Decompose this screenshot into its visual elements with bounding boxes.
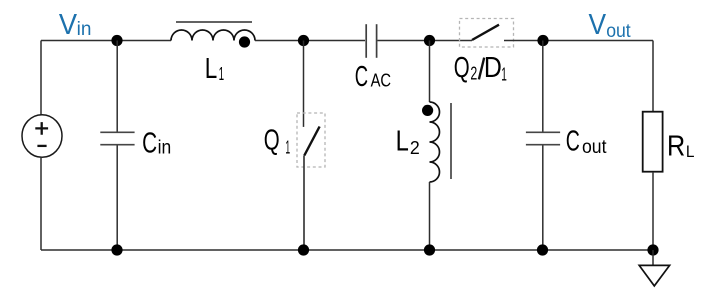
switch Q1 lead top <box>303 41 305 127</box>
svg-text:C: C <box>142 127 157 159</box>
svg-text:2: 2 <box>470 63 477 84</box>
wire left vertical (source bottom lead) <box>40 157 42 250</box>
voltage source V1 <box>22 115 62 158</box>
label Q1 <box>264 125 290 158</box>
capacitor Cin lead bottom <box>116 145 118 250</box>
switch Q2/D1 blade <box>472 25 499 40</box>
label Cout <box>566 125 607 158</box>
capacitor Cout lead top <box>542 41 544 132</box>
wire left vertical (source top lead) <box>40 41 42 115</box>
ground <box>639 250 669 286</box>
node Q1 junction dot top <box>298 35 309 46</box>
switch Q1 blade <box>304 127 319 156</box>
svg-text:out: out <box>582 137 607 158</box>
svg-text:Q: Q <box>454 52 470 84</box>
svg-text:R: R <box>667 130 685 162</box>
inductor L2 polarity dot <box>422 105 433 116</box>
switch Q1 lead bottom <box>303 156 305 251</box>
node junction dot bottom Q1 <box>298 244 309 255</box>
inductor L2 lead top <box>429 41 431 103</box>
node junction dot bottom Cin <box>111 244 122 255</box>
capacitor CAC <box>366 24 376 58</box>
svg-text:C: C <box>566 125 580 157</box>
wire top between Q2 and Cout <box>504 40 653 42</box>
label CAC <box>355 61 391 93</box>
svg-text:out: out <box>606 21 631 42</box>
svg-text:Q: Q <box>264 125 280 157</box>
node label Vin <box>59 9 92 41</box>
svg-text:V: V <box>589 9 607 41</box>
inductor L1 polarity dot <box>239 36 250 47</box>
node label Vout <box>589 9 632 42</box>
wire right vertical top <box>652 41 654 112</box>
capacitor Cin lead top <box>116 41 118 132</box>
wire top between CAC and Q2 <box>378 40 473 42</box>
wire bottom rail <box>41 249 653 251</box>
inductor L1 core bar <box>176 21 252 23</box>
capacitor Cin <box>100 132 134 144</box>
svg-text:1: 1 <box>501 63 507 84</box>
wire right vertical bottom <box>652 173 654 250</box>
svg-text:D: D <box>484 52 502 84</box>
label Cin <box>142 127 171 159</box>
capacitor Cout <box>526 132 560 144</box>
label L2 <box>396 125 420 158</box>
svg-text:V: V <box>59 9 78 41</box>
node junction dot bottom L2 <box>424 244 435 255</box>
label L1 <box>205 53 224 85</box>
svg-text:2: 2 <box>410 137 420 158</box>
node junction dot bottom ground <box>647 244 658 255</box>
inductor L2 lead bottom <box>429 182 431 250</box>
label RL <box>667 130 695 162</box>
switch Q1 dashed outline <box>297 113 325 167</box>
inductor L2 <box>430 102 440 182</box>
label Q2/D1 <box>454 52 507 84</box>
wire top between L1 and CAC <box>255 40 365 42</box>
svg-text:1: 1 <box>285 137 290 158</box>
inductor L2 core bar <box>450 103 452 179</box>
resistor RL <box>643 112 663 172</box>
svg-text:in: in <box>158 138 172 159</box>
node L2 junction dot top <box>424 35 435 46</box>
node junction dot bottom Cout <box>537 244 548 255</box>
svg-text:1: 1 <box>219 63 225 84</box>
node Cout junction dot top <box>537 35 548 46</box>
svg-text:in: in <box>77 19 92 40</box>
svg-text:C: C <box>355 61 368 93</box>
svg-text:L: L <box>205 53 218 85</box>
inductor L1 <box>171 30 255 41</box>
svg-text:AC: AC <box>371 71 392 91</box>
node Vin junction dot top <box>111 35 122 46</box>
svg-text:L: L <box>686 142 695 161</box>
wire top left segment <box>41 40 171 42</box>
switch Q2/D1 dashed outline <box>460 19 514 48</box>
capacitor Cout lead bottom <box>542 145 544 250</box>
svg-text:L: L <box>396 125 409 157</box>
